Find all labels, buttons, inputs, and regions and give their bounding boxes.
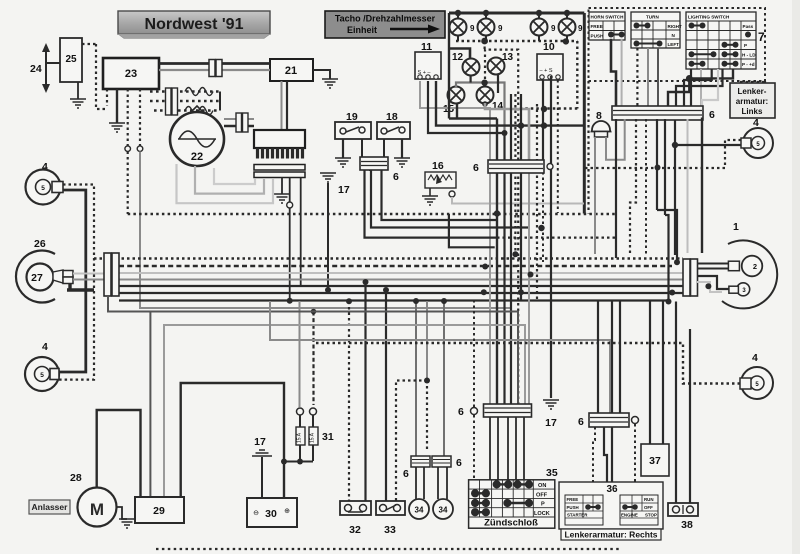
svg-text:FREE: FREE [567, 497, 579, 502]
svg-text:PUSH: PUSH [591, 34, 604, 39]
svg-text:LIGHTING SWITCH: LIGHTING SWITCH [688, 15, 730, 20]
svg-text:6: 6 [578, 416, 584, 428]
svg-text:Tacho /Drehzahlmesser: Tacho /Drehzahlmesser [335, 14, 436, 24]
svg-text:6: 6 [403, 468, 409, 480]
svg-text:LOCK: LOCK [534, 511, 550, 517]
svg-text:22: 22 [191, 151, 203, 163]
svg-text:34: 34 [439, 506, 448, 515]
svg-text:armatur:: armatur: [736, 97, 768, 106]
svg-text:12: 12 [452, 52, 464, 63]
svg-text:25: 25 [65, 54, 77, 65]
svg-text:38: 38 [681, 519, 693, 531]
svg-text:M: M [90, 500, 104, 519]
svg-text:37: 37 [649, 455, 661, 467]
svg-text:14: 14 [492, 101, 504, 112]
svg-text:15 A: 15 A [310, 432, 316, 443]
svg-text:33: 33 [384, 524, 396, 536]
svg-text:RIGHT: RIGHT [668, 24, 682, 29]
svg-text:17: 17 [254, 436, 266, 448]
svg-text:10: 10 [543, 41, 555, 53]
svg-text:13: 13 [502, 52, 514, 63]
svg-text:6: 6 [456, 457, 462, 469]
svg-text:5: 5 [41, 185, 45, 192]
svg-text:Lenker-: Lenker- [738, 87, 767, 96]
svg-text:LEFT: LEFT [668, 42, 680, 47]
svg-text:P: P [744, 43, 747, 48]
svg-text:29: 29 [153, 505, 165, 517]
svg-text:TURN: TURN [646, 15, 659, 20]
svg-text:1: 1 [733, 221, 739, 233]
svg-text:PUSH: PUSH [567, 505, 579, 510]
svg-text:RUN: RUN [644, 497, 654, 502]
svg-text:35: 35 [546, 467, 558, 479]
svg-text:ON: ON [538, 483, 546, 489]
svg-text:Einheit: Einheit [347, 25, 377, 35]
svg-text:6: 6 [473, 162, 479, 174]
svg-text:⊕: ⊕ [284, 508, 290, 515]
svg-text:6: 6 [709, 109, 715, 121]
svg-text:6: 6 [393, 171, 399, 183]
svg-text:Zündschloß: Zündschloß [484, 518, 538, 529]
svg-text:P: P [541, 502, 545, 508]
svg-text:Links: Links [742, 107, 763, 116]
svg-text:HORN SWITCH: HORN SWITCH [591, 15, 625, 20]
svg-text:⊖: ⊖ [253, 510, 259, 517]
svg-text:26: 26 [34, 238, 46, 250]
svg-text:17: 17 [338, 184, 350, 196]
svg-text:7: 7 [758, 30, 765, 44]
svg-text:9: 9 [470, 24, 475, 33]
svg-text:31: 31 [322, 431, 334, 443]
svg-text:21: 21 [285, 65, 297, 77]
svg-text:9: 9 [498, 24, 503, 33]
svg-text:6: 6 [458, 406, 464, 418]
svg-text:9: 9 [551, 24, 556, 33]
svg-text:2: 2 [753, 262, 757, 271]
svg-text:FREE: FREE [591, 24, 603, 29]
svg-text:32: 32 [349, 524, 361, 536]
svg-text:34: 34 [415, 506, 424, 515]
svg-text:23: 23 [125, 68, 137, 80]
svg-text:ENGINE: ENGINE [621, 513, 638, 518]
svg-text:H - LD: H - LD [742, 53, 756, 58]
svg-text:4: 4 [752, 352, 758, 364]
svg-text:4: 4 [42, 341, 48, 353]
svg-text:OFF: OFF [536, 492, 548, 498]
svg-text:Anlasser: Anlasser [32, 502, 69, 512]
svg-text:9: 9 [578, 24, 583, 33]
svg-text:P - +d: P - +d [742, 62, 755, 67]
svg-text:Pass: Pass [743, 24, 754, 29]
svg-text:Nordwest '91: Nordwest '91 [145, 16, 244, 33]
svg-text:OFF: OFF [644, 505, 653, 510]
svg-text:STOP: STOP [645, 513, 657, 518]
svg-text:28: 28 [70, 472, 82, 484]
svg-text:24: 24 [30, 63, 42, 75]
svg-text:5: 5 [40, 372, 44, 379]
svg-text:17: 17 [545, 417, 557, 429]
svg-text:30: 30 [265, 508, 277, 520]
svg-text:16: 16 [432, 160, 444, 172]
svg-text:36: 36 [606, 484, 618, 495]
svg-text:– + S: – + S [540, 68, 553, 74]
svg-text:15 A: 15 A [297, 432, 303, 443]
svg-text:Lenkerarmatur: Rechts: Lenkerarmatur: Rechts [564, 530, 657, 540]
svg-text:27: 27 [31, 272, 43, 284]
svg-text:STARTER: STARTER [567, 513, 588, 518]
